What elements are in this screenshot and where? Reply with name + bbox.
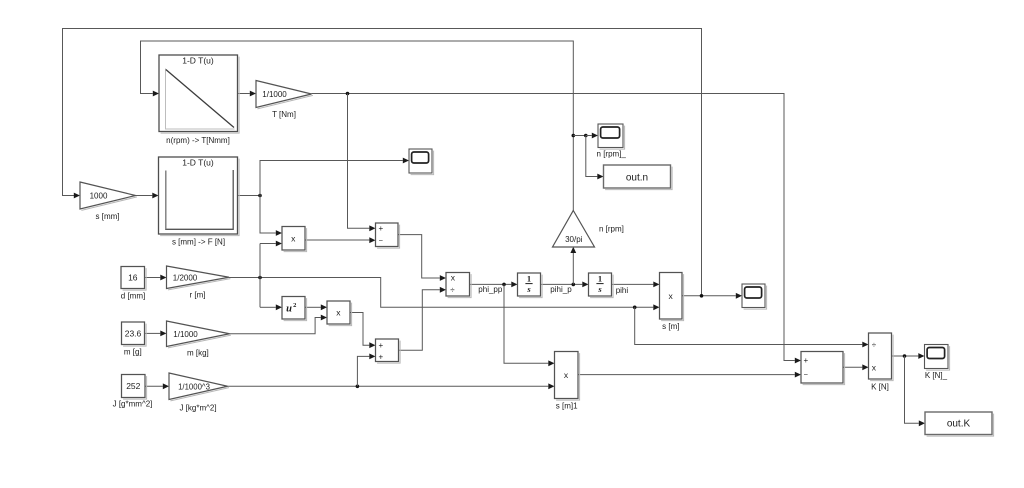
svg-text:s [m]: s [m] xyxy=(662,322,679,331)
svg-text:pihi_p: pihi_p xyxy=(550,285,572,294)
svg-text:n(rpm) -> T[Nmm]: n(rpm) -> T[Nmm] xyxy=(166,136,230,145)
svg-text:÷: ÷ xyxy=(872,341,877,350)
svg-text:1/1000: 1/1000 xyxy=(173,330,198,339)
svg-text:s [mm] -> F [N]: s [mm] -> F [N] xyxy=(172,237,225,246)
svg-text:+: + xyxy=(803,356,808,365)
svg-text:1/2000: 1/2000 xyxy=(173,273,198,282)
svg-text:1000: 1000 xyxy=(90,192,108,201)
svg-text:+: + xyxy=(378,224,383,233)
svg-text:1/1000^3: 1/1000^3 xyxy=(178,382,210,391)
svg-text:252: 252 xyxy=(126,381,140,391)
svg-text:30/pi: 30/pi xyxy=(565,235,583,244)
svg-text:out.K: out.K xyxy=(947,419,971,430)
svg-text:16: 16 xyxy=(128,272,138,282)
svg-text:d [mm]: d [mm] xyxy=(121,291,145,300)
svg-text:J [kg*m^2]: J [kg*m^2] xyxy=(179,403,216,412)
svg-text:r [m]: r [m] xyxy=(190,291,206,300)
svg-text:1-D T(u): 1-D T(u) xyxy=(182,157,214,167)
svg-text:J [g*mm^2]: J [g*mm^2] xyxy=(113,400,153,409)
svg-text:+: + xyxy=(378,341,383,350)
svg-text:1: 1 xyxy=(598,274,602,284)
svg-text:x: x xyxy=(872,362,877,372)
svg-text:K [N]_: K [N]_ xyxy=(925,371,948,380)
svg-text:m [kg]: m [kg] xyxy=(187,348,209,357)
svg-text:x: x xyxy=(668,291,673,301)
svg-text:s: s xyxy=(526,284,531,294)
svg-text:x: x xyxy=(451,273,456,283)
svg-text:1: 1 xyxy=(527,274,531,284)
svg-text:−: − xyxy=(379,236,384,245)
svg-text:n [rpm]: n [rpm] xyxy=(599,225,624,234)
svg-text:m [g]: m [g] xyxy=(124,348,142,357)
svg-text:s [mm]: s [mm] xyxy=(96,212,120,221)
svg-text:T [Nm]: T [Nm] xyxy=(272,110,296,119)
svg-text:1/1000: 1/1000 xyxy=(262,90,287,99)
svg-text:2: 2 xyxy=(293,302,296,309)
svg-text:out.n: out.n xyxy=(626,172,648,183)
svg-text:1-D T(u): 1-D T(u) xyxy=(182,56,214,66)
svg-text:−: − xyxy=(804,370,809,379)
svg-text:phi_pp: phi_pp xyxy=(478,285,503,294)
svg-text:s [m]1: s [m]1 xyxy=(556,401,578,410)
svg-text:u: u xyxy=(286,304,292,315)
svg-text:23.6: 23.6 xyxy=(125,329,142,339)
svg-text:÷: ÷ xyxy=(450,285,455,294)
svg-text:s: s xyxy=(597,284,602,294)
svg-text:pihi: pihi xyxy=(616,286,629,295)
svg-text:n [rpm]_: n [rpm]_ xyxy=(597,150,627,159)
svg-text:x: x xyxy=(336,308,341,318)
svg-text:K [N]: K [N] xyxy=(871,383,889,392)
svg-text:x: x xyxy=(291,234,296,244)
svg-text:+: + xyxy=(378,352,383,361)
